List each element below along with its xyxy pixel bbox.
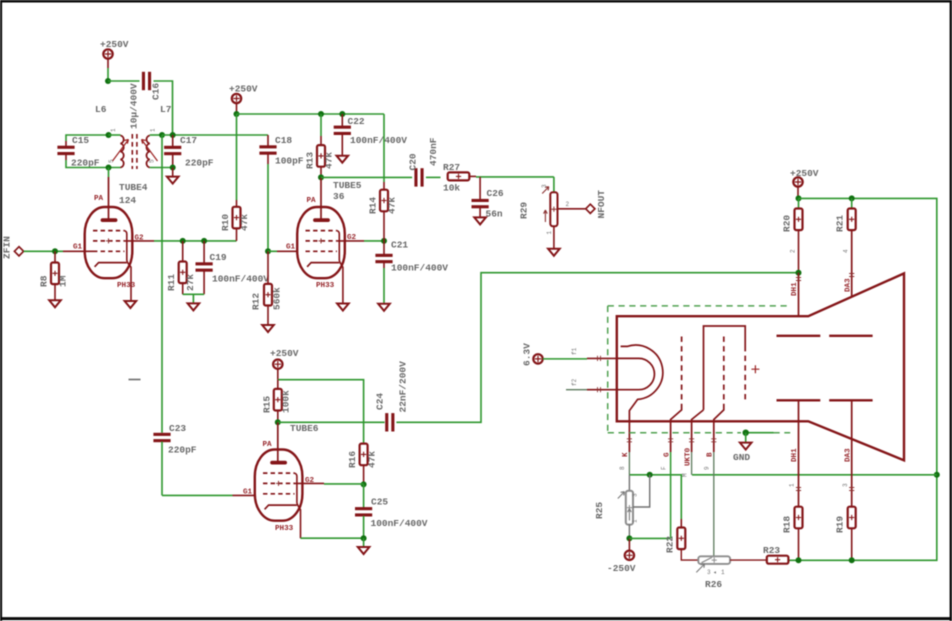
svg-text:47k: 47k xyxy=(324,152,335,169)
pin DA top xyxy=(845,274,855,293)
svg-text:NFOUT: NFOUT xyxy=(596,190,607,219)
svg-text:10k: 10k xyxy=(443,183,460,194)
wire grid bias xyxy=(629,537,670,539)
wire G2 row tube4 xyxy=(124,240,154,242)
svg-text:4: 4 xyxy=(843,249,850,253)
junction xyxy=(849,195,855,201)
svg-text:R18: R18 xyxy=(782,516,793,533)
wire xyxy=(324,483,364,485)
junction NFB to DH1 xyxy=(796,270,802,276)
tube TUBE4 xyxy=(85,177,148,301)
svg-text:+250V: +250V xyxy=(790,168,819,179)
svg-text:PH33: PH33 xyxy=(275,525,294,533)
ground xyxy=(378,304,390,311)
ground xyxy=(125,301,137,308)
junction xyxy=(626,535,632,541)
pin B ticks and label xyxy=(704,439,717,557)
svg-text:R26: R26 xyxy=(705,579,722,590)
svg-text:1M: 1M xyxy=(58,275,69,287)
power +250V supply 3 xyxy=(270,348,299,380)
heater and cathode xyxy=(617,345,663,452)
svg-text:R10: R10 xyxy=(220,214,231,231)
svg-text:220pF: 220pF xyxy=(185,158,214,169)
ground xyxy=(188,303,200,310)
node ZFIN xyxy=(2,236,24,259)
dashed tube boundary box xyxy=(608,306,791,433)
wire cathode tube6 xyxy=(301,537,364,539)
svg-text:R8: R8 xyxy=(39,275,50,287)
wire xyxy=(162,494,233,496)
svg-text:C19: C19 xyxy=(210,252,227,263)
svg-text:PH33: PH33 xyxy=(117,282,136,290)
svg-text:100nF/400V: 100nF/400V xyxy=(212,274,269,285)
wire cathode K row xyxy=(629,475,681,519)
svg-text:GND: GND xyxy=(733,452,750,463)
power -250V supply xyxy=(607,538,636,574)
wire xyxy=(24,250,63,252)
junction xyxy=(52,248,58,254)
svg-text:100nF/400V: 100nF/400V xyxy=(371,518,428,529)
ground xyxy=(337,156,349,163)
wire xyxy=(109,134,121,136)
svg-text:47k: 47k xyxy=(367,451,378,468)
svg-text:C26: C26 xyxy=(487,188,504,199)
svg-text:G2: G2 xyxy=(135,235,145,243)
svg-text:100pF: 100pF xyxy=(275,156,304,167)
svg-text:1: 1 xyxy=(110,128,117,132)
pin DH1 bottom xyxy=(789,400,802,506)
capacitor C20 xyxy=(408,137,440,186)
capacitor C23 xyxy=(153,423,196,495)
capacitor C15 xyxy=(57,135,99,169)
svg-text:C22: C22 xyxy=(348,116,365,127)
svg-text:36: 36 xyxy=(333,191,345,202)
svg-text:R27: R27 xyxy=(443,162,460,173)
junction xyxy=(796,557,802,563)
svg-text:8: 8 xyxy=(619,466,626,470)
svg-text:TUBE6: TUBE6 xyxy=(290,423,319,434)
wire heater 2 stub xyxy=(566,389,587,391)
svg-text:470nF: 470nF xyxy=(428,137,439,166)
svg-text:6.3V: 6.3V xyxy=(522,343,533,366)
wire G1 pin tube5 xyxy=(277,250,307,252)
junction xyxy=(170,132,176,138)
junction xyxy=(234,111,240,117)
svg-text:R13: R13 xyxy=(305,152,316,169)
svg-text:56n: 56n xyxy=(486,209,503,220)
svg-text:9: 9 xyxy=(704,466,711,470)
inductor L7 xyxy=(142,104,172,168)
ground xyxy=(167,168,179,184)
border frame xyxy=(0,0,952,3)
svg-text:3: 3 xyxy=(842,483,849,487)
wire xyxy=(183,294,204,303)
svg-text:PH33: PH33 xyxy=(316,282,335,290)
svg-text:G2: G2 xyxy=(305,477,315,485)
wire xyxy=(150,167,173,169)
svg-text:3: 3 xyxy=(632,493,639,497)
svg-text:R15: R15 xyxy=(262,396,273,413)
junction xyxy=(849,557,855,563)
origin cross xyxy=(751,365,759,373)
svg-text:G1: G1 xyxy=(286,244,296,252)
junction xyxy=(318,111,324,117)
wire rail xyxy=(237,113,385,115)
wire G2 pin tube5 xyxy=(337,240,364,242)
potentiometer R26 xyxy=(696,556,767,590)
svg-text:ZFIN: ZFIN xyxy=(2,236,13,259)
junction xyxy=(201,238,207,244)
svg-text:1: 1 xyxy=(546,231,553,235)
svg-text:TUBE5: TUBE5 xyxy=(333,180,362,191)
svg-text:f1: f1 xyxy=(571,347,578,355)
svg-text:C17: C17 xyxy=(180,135,197,146)
svg-text:1: 1 xyxy=(632,519,639,523)
resistor R18 xyxy=(782,507,803,561)
net dash mark xyxy=(129,379,141,381)
svg-text:PA: PA xyxy=(263,441,273,449)
svg-text:f2: f2 xyxy=(571,378,578,386)
capacitor C17 xyxy=(164,135,214,169)
junction xyxy=(170,165,176,171)
junction xyxy=(934,472,940,478)
capacitor C19 xyxy=(196,241,270,294)
svg-text:C20: C20 xyxy=(408,153,419,170)
junction xyxy=(265,248,271,254)
junction xyxy=(105,78,111,84)
power 6.3V supply xyxy=(522,343,588,366)
svg-text:R22: R22 xyxy=(665,536,676,553)
svg-text:1: 1 xyxy=(721,569,725,576)
svg-text:C21: C21 xyxy=(391,240,408,251)
svg-text:R12: R12 xyxy=(251,293,262,310)
resistor R23 xyxy=(763,545,788,564)
tube TUBE5 xyxy=(297,177,362,303)
node NFOUT xyxy=(586,190,607,219)
wire G2 pin tube6 xyxy=(295,482,325,484)
resistor R22 xyxy=(665,519,699,560)
wire xyxy=(364,240,384,242)
svg-text:C16: C16 xyxy=(151,83,162,100)
svg-text:R16: R16 xyxy=(347,451,358,468)
svg-text:R23: R23 xyxy=(763,545,780,556)
svg-text:G2: G2 xyxy=(347,234,357,242)
wire xyxy=(66,160,121,168)
svg-text:+250V: +250V xyxy=(229,84,258,95)
magic eye tube body xyxy=(617,273,904,460)
junction GND xyxy=(743,430,749,436)
ground xyxy=(262,325,274,332)
svg-text:C25: C25 xyxy=(371,497,388,508)
svg-text:R14: R14 xyxy=(368,197,379,214)
junction xyxy=(159,132,165,138)
svg-text:3: 3 xyxy=(541,184,548,188)
power +250V supply 4 xyxy=(790,168,819,198)
wire G1 pin tube6 xyxy=(233,494,264,496)
svg-text:100nF/400V: 100nF/400V xyxy=(391,263,448,274)
svg-text:◂: ◂ xyxy=(713,569,717,576)
capacitor C24 xyxy=(375,361,409,432)
ground GND xyxy=(733,433,752,463)
ground xyxy=(49,300,61,307)
svg-text:R29: R29 xyxy=(519,202,530,219)
capacitor C21 xyxy=(375,240,448,304)
wire xyxy=(278,421,385,423)
svg-text:27k: 27k xyxy=(185,274,196,291)
svg-text:PA: PA xyxy=(307,197,317,205)
wire xyxy=(107,68,109,81)
svg-text:R21: R21 xyxy=(835,215,846,232)
svg-text:3: 3 xyxy=(707,569,711,576)
svg-text:22nF/200V: 22nF/200V xyxy=(398,361,409,413)
wire xyxy=(476,176,554,178)
potentiometer R25 xyxy=(594,475,650,539)
ground xyxy=(358,538,370,554)
svg-text:100k: 100k xyxy=(281,390,292,413)
svg-text:R11: R11 xyxy=(166,274,177,291)
inductor L6 xyxy=(95,104,129,168)
ground xyxy=(337,304,349,311)
svg-text:C23: C23 xyxy=(169,423,186,434)
svg-text:R20: R20 xyxy=(782,215,793,232)
grid g dashed xyxy=(671,337,682,453)
wire xyxy=(267,164,269,251)
wire G1 pin tube4 xyxy=(63,250,93,252)
resistor R8 xyxy=(39,251,69,300)
wire xyxy=(154,81,173,135)
wire xyxy=(150,134,162,136)
svg-text:2: 2 xyxy=(790,249,797,253)
junction xyxy=(647,472,653,478)
resistor R13 xyxy=(305,114,335,177)
pin G ticks and label xyxy=(661,439,674,539)
capacitor C25 xyxy=(355,484,428,538)
svg-text:C24: C24 xyxy=(375,393,386,410)
svg-text:PA: PA xyxy=(94,195,104,203)
wire NFB loop xyxy=(396,273,799,423)
resistor R15 xyxy=(262,380,292,423)
ground xyxy=(474,217,486,224)
junction xyxy=(796,195,802,201)
svg-text:L6: L6 xyxy=(95,104,107,115)
power +250V supply 2 xyxy=(229,84,258,115)
display plates bottom xyxy=(777,399,873,401)
capacitor C26 xyxy=(472,177,504,220)
svg-text:R19: R19 xyxy=(835,516,846,533)
resistor R21 xyxy=(835,198,856,335)
junction xyxy=(106,165,112,171)
pin UKT ticks and label xyxy=(682,439,695,477)
deflection electrode solid U xyxy=(692,326,746,452)
grid dashed 2 xyxy=(714,337,724,453)
svg-text:10µ/400V: 10µ/400V xyxy=(129,83,140,129)
junction xyxy=(106,132,112,138)
resistor R12 xyxy=(251,251,283,325)
pin DA bottom xyxy=(842,400,854,506)
svg-text:R25: R25 xyxy=(594,502,605,519)
svg-text:124: 124 xyxy=(119,195,136,206)
svg-text:G1: G1 xyxy=(73,244,83,252)
resistor R16 xyxy=(347,444,378,485)
pin K ticks and label xyxy=(619,439,632,475)
wire xyxy=(108,168,110,178)
wire top right rail xyxy=(788,198,937,560)
junction xyxy=(361,535,367,541)
display plates top xyxy=(777,335,873,337)
svg-text:47k: 47k xyxy=(239,214,250,231)
wire screen feed xyxy=(278,380,364,444)
svg-text:C15: C15 xyxy=(72,135,89,146)
wire xyxy=(108,80,140,82)
transformer core xyxy=(132,134,137,169)
power +250V supply 1 xyxy=(100,39,129,68)
svg-text:-250V: -250V xyxy=(607,563,636,574)
svg-text:DA3: DA3 xyxy=(845,448,853,462)
svg-text:2: 2 xyxy=(566,201,570,208)
junction tube6 anode node xyxy=(275,419,281,425)
wire xyxy=(469,175,476,177)
wire anode row stage2 xyxy=(321,176,412,178)
capacitor C16 xyxy=(129,72,162,129)
resistor R10 xyxy=(220,114,250,241)
resistor R14 xyxy=(368,114,398,241)
svg-text:TUBE4: TUBE4 xyxy=(119,182,148,193)
potentiometer R29 xyxy=(519,177,586,249)
svg-text:+250V: +250V xyxy=(100,39,129,50)
junction xyxy=(381,238,387,244)
wire xyxy=(66,135,109,141)
svg-text:C18: C18 xyxy=(275,135,292,146)
svg-text:1: 1 xyxy=(150,128,157,132)
capacitor C18 xyxy=(259,135,303,167)
junction tube5 anode node xyxy=(318,174,324,180)
resistor R27 xyxy=(443,162,469,194)
svg-text:1: 1 xyxy=(789,483,796,487)
svg-text:47k: 47k xyxy=(387,197,398,214)
svg-text:DH1: DH1 xyxy=(791,448,799,462)
capacitor C22 xyxy=(334,114,408,156)
resistor R19 xyxy=(835,507,856,561)
svg-text:L7: L7 xyxy=(160,104,172,115)
svg-text:100nF/400V: 100nF/400V xyxy=(350,135,407,146)
junction tube6 G2 node xyxy=(361,481,367,487)
junction xyxy=(339,111,345,117)
svg-text:M: M xyxy=(682,473,689,477)
resistor R20 xyxy=(782,198,803,272)
tube TUBE6 xyxy=(255,422,319,538)
svg-text:G1: G1 xyxy=(243,489,253,497)
wire xyxy=(426,176,441,178)
ground xyxy=(548,249,560,256)
wire xyxy=(162,134,268,136)
junction xyxy=(180,238,186,244)
wire long coupling from transformer to C23 xyxy=(161,135,163,433)
wire xyxy=(154,240,237,242)
wire xyxy=(268,250,277,252)
wire pin3 to rail xyxy=(692,474,937,476)
svg-text:560k: 560k xyxy=(272,287,283,310)
svg-text:DH1: DH1 xyxy=(791,282,799,296)
svg-text:+250V: +250V xyxy=(270,348,299,359)
heater pin f1 xyxy=(571,347,617,361)
svg-text:F: F xyxy=(661,466,668,470)
svg-text:220pF: 220pF xyxy=(168,445,197,456)
pin DH1 top xyxy=(791,273,801,336)
svg-text:5: 5 xyxy=(149,159,156,163)
resistor R11 xyxy=(166,241,196,294)
heater pin f2 xyxy=(571,378,617,392)
svg-text:DA3: DA3 xyxy=(845,278,853,292)
